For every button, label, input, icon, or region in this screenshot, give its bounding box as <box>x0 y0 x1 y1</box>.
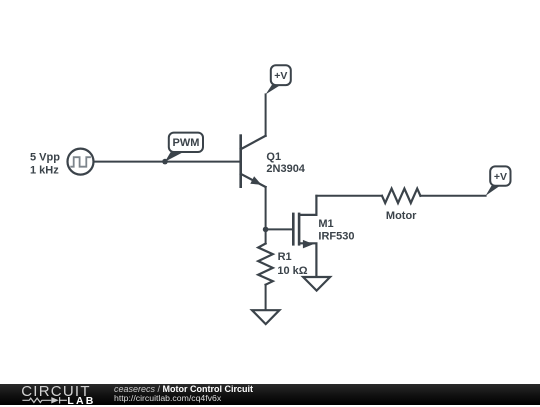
flag PWM tail <box>165 152 183 161</box>
supply +V top box <box>271 65 291 85</box>
mosfet M1 source arrow <box>303 240 314 249</box>
svg-text:+V: +V <box>494 171 507 183</box>
square wave glyph <box>70 157 91 167</box>
voltage source V1 <box>68 149 94 175</box>
ground under R1 <box>252 310 279 324</box>
supply +V right tail <box>486 186 500 196</box>
svg-text:M1: M1 <box>318 218 333 230</box>
logo CIRCUIT <box>21 383 91 400</box>
svg-text:5 Vpp: 5 Vpp <box>30 152 60 164</box>
svg-text:2N3904: 2N3904 <box>266 163 305 175</box>
flag PWM box <box>169 133 203 152</box>
mosfet M1 gate bar <box>292 214 295 244</box>
node PWM junction dot <box>162 159 168 165</box>
node A junction dot <box>263 227 269 233</box>
wire motor to +V right <box>420 195 485 197</box>
mosfet M1 drain lead <box>299 196 316 215</box>
svg-text:IRF530: IRF530 <box>318 230 354 242</box>
wire V1 to Q1 base <box>94 161 241 163</box>
wire Q1 emitter to node A <box>265 187 267 244</box>
svg-text:Motor: Motor <box>386 210 417 222</box>
wire drain to motor <box>316 195 382 197</box>
supply +V right box <box>490 166 510 185</box>
resistor Motor zigzag <box>382 189 420 203</box>
ground under M1 <box>303 277 330 291</box>
svg-text:PWM: PWM <box>173 137 200 149</box>
logo schematic line <box>20 396 90 406</box>
svg-text:R1: R1 <box>278 251 292 263</box>
transistor Q1 emitter arrow <box>250 176 261 185</box>
supply +V top tail <box>266 85 281 94</box>
logo LAB <box>67 395 95 407</box>
wire Q1 collector to +V <box>265 94 267 135</box>
wire node A to M1 gate <box>266 228 293 230</box>
credit line 1 <box>114 384 253 394</box>
mosfet M1 source lead <box>299 243 316 276</box>
transistor Q1 collector diagonal <box>241 136 266 149</box>
svg-text:1 kHz: 1 kHz <box>30 164 59 176</box>
resistor R1 zigzag <box>258 244 273 285</box>
wire R1 to ground <box>265 285 267 310</box>
transistor Q1 base bar <box>239 136 242 187</box>
footer bar <box>0 384 540 405</box>
svg-text:Q1: Q1 <box>266 151 281 163</box>
credit line 2 <box>114 393 221 403</box>
svg-text:+V: +V <box>274 70 287 82</box>
transistor Q1 emitter diagonal <box>241 174 266 187</box>
mosfet M1 channel bar <box>298 214 301 244</box>
svg-text:10 kΩ: 10 kΩ <box>277 265 307 277</box>
